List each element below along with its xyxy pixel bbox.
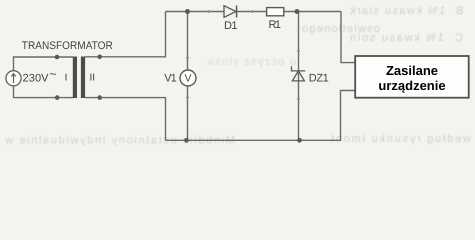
svg-text:R1: R1 (269, 19, 282, 31)
svg-text:D1: D1 (224, 20, 238, 32)
svg-text:DZ1: DZ1 (309, 72, 329, 84)
svg-text:V: V (184, 72, 191, 84)
svg-text:I: I (65, 72, 68, 83)
svg-text:~: ~ (50, 67, 57, 81)
svg-text:urządzenie: urządzenie (378, 78, 445, 93)
svg-text:230V: 230V (23, 72, 50, 84)
svg-text:C 1% kwasu soln: C 1% kwasu soln (350, 32, 463, 44)
svg-text:TRANSFORMATOR: TRANSFORMATOR (22, 40, 113, 52)
svg-text:V1: V1 (164, 72, 177, 84)
svg-text:według rysunku imont: według rysunku imont (331, 133, 472, 145)
svg-text:Zasilane: Zasilane (386, 63, 438, 78)
svg-text:u oczysz ylosa: u oczysz ylosa (207, 56, 296, 68)
svg-text:II: II (90, 72, 96, 83)
svg-text:B 1% kwasu siark: B 1% kwasu siark (350, 5, 464, 17)
